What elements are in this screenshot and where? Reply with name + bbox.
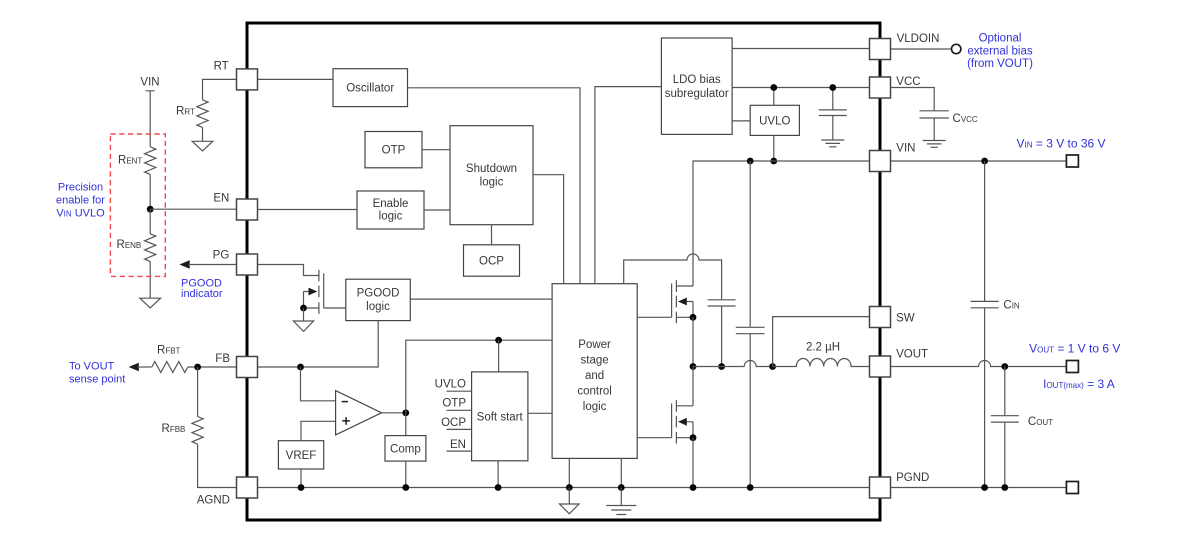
svg-text:RENB: RENB: [117, 239, 142, 251]
wire PGND pin to PGND terminal: [891, 487, 1067, 489]
svg-text:LDO bias: LDO bias: [673, 74, 721, 86]
wire arrow to RFBT: [138, 366, 152, 368]
node FB divider junction: [194, 364, 201, 371]
node SW-pin/inductor tap: [769, 363, 776, 370]
wire PGOOD logic to Power stage: [410, 298, 552, 300]
transistor Q2 (low-side MOSFET): [672, 400, 693, 443]
capacitor CIN: [971, 300, 1020, 312]
arrow PGOOD indicator: [180, 260, 190, 269]
svg-text:logic: logic: [583, 401, 607, 413]
pin VOUT: [870, 349, 929, 378]
ground (Q3 source): [293, 321, 313, 331]
capacitor CVCC: [920, 111, 978, 125]
node Soft start tap: [495, 337, 502, 344]
node CIN return: [981, 484, 988, 491]
signal label OTP into Soft start: [442, 398, 471, 411]
svg-text:control: control: [577, 386, 612, 398]
resistor RFBT: [152, 345, 188, 373]
terminal VOUT: [1066, 361, 1078, 373]
wire VLDOIN pin to optional bias terminal: [891, 48, 952, 50]
node Comp ground: [402, 484, 409, 491]
svg-text:indicator: indicator: [181, 288, 223, 300]
node Q2 source-body tie: [690, 434, 697, 441]
wire COUT top: [1004, 367, 1006, 416]
block LDO bias subregulator: [661, 38, 732, 134]
wire Q2 drain to SW node: [692, 367, 694, 406]
annotation: Precision enable for VIN UVLO: [56, 182, 105, 220]
wire VREF to AGND rail: [300, 469, 302, 488]
node UVLO-VCC junction: [770, 84, 777, 91]
wire LDO bias to Power stage: [595, 87, 662, 284]
pin AGND: [197, 477, 258, 507]
wire Oscillator to Power stage: [408, 88, 581, 284]
wire AGND/PGND internal rail: [258, 487, 870, 489]
wire VIN to RENT: [146, 91, 155, 147]
annotation: PGOOD indicator: [181, 277, 223, 300]
wire CVCC to ground: [933, 118, 935, 141]
svg-text:Oscillator: Oscillator: [346, 83, 394, 95]
wire Soft start top: [498, 340, 500, 372]
wire VOUT pin to VOUT terminal (hops over CIN line): [891, 361, 1067, 367]
resistor RFBB: [162, 417, 204, 445]
svg-text:EN: EN: [450, 439, 466, 451]
terminal optional external bias (open circle): [952, 44, 961, 53]
svg-text:and: and: [585, 370, 604, 382]
wire LDO bias to UVLO: [732, 120, 750, 122]
wire RFBB to AGND pin: [198, 444, 237, 487]
wire VIN branch to internal capacitor: [749, 161, 751, 327]
ground (VCC cap): [821, 140, 844, 147]
resistor RRT: [176, 100, 208, 128]
wire boot capacitor to SW node: [721, 306, 723, 366]
wire Q1 gate drive: [637, 316, 671, 318]
pin FB: [215, 353, 257, 378]
svg-text:sense point: sense point: [69, 374, 125, 386]
svg-text:CIN: CIN: [1003, 300, 1020, 312]
wire Comp block to AGND rail: [405, 461, 407, 487]
block VREF: [278, 441, 323, 469]
node COUT return: [1001, 484, 1008, 491]
wire Q1 source to SW node: [692, 317, 694, 366]
ground (RRT): [192, 141, 213, 151]
wire VREF to op-amp non-inverting input: [301, 421, 336, 440]
wire divider node to RENB: [149, 209, 151, 234]
wire COUT bottom to PGND rail: [1004, 422, 1006, 487]
svg-text:subregulator: subregulator: [665, 88, 729, 100]
wire Power stage ground stub 2: [620, 458, 622, 487]
capacitor COUT: [991, 416, 1053, 428]
block Comp: [385, 436, 426, 462]
svg-text:(from VOUT): (from VOUT): [967, 58, 1033, 70]
block UVLO: [750, 105, 799, 135]
svg-text:logic: logic: [480, 176, 504, 188]
wire RT pin to RRT: [203, 79, 237, 99]
node Q2 source ground: [690, 484, 697, 491]
wire Q2 source to PGND rail: [692, 438, 694, 488]
annotation: Optional external bias (from VOUT): [967, 33, 1033, 71]
wire Power stage ground stub 1: [568, 458, 570, 487]
wire VCC cap to ground: [832, 116, 834, 140]
node Soft start ground: [495, 484, 502, 491]
block OTP: [365, 132, 422, 168]
svg-text:UVLO: UVLO: [759, 115, 790, 127]
svg-text:VCC: VCC: [896, 76, 920, 88]
wire RENT to EN divider node: [149, 174, 151, 209]
svg-text:VOUT = 1 V to 6 V: VOUT = 1 V to 6 V: [1029, 342, 1120, 356]
svg-text:Power: Power: [578, 339, 611, 351]
node Q3 source-body tie: [300, 305, 307, 312]
wire Q3 source to ground: [303, 308, 305, 321]
svg-text:OCP: OCP: [479, 256, 504, 268]
svg-text:VREF: VREF: [286, 450, 317, 462]
wire LDO bias to VLDOIN pin: [732, 48, 869, 50]
node UVLO-VIN junction: [770, 158, 777, 165]
block Soft start: [472, 372, 528, 461]
svg-text:SW: SW: [896, 313, 915, 325]
terminal VIN: [1066, 155, 1078, 167]
svg-text:2.2 µH: 2.2 µH: [806, 342, 840, 354]
node COUT tap: [1001, 363, 1008, 370]
ground (analog, triangle): [560, 504, 580, 514]
capacitor bootstrap: [708, 300, 736, 306]
wire FB to op-amp inverting input: [301, 367, 336, 401]
node COMP junction: [402, 409, 409, 416]
svg-text:RENT: RENT: [118, 155, 142, 167]
module outline: [247, 23, 880, 520]
ground (CVCC): [923, 141, 946, 148]
wire op-amp output: [382, 412, 406, 414]
svg-text:FB: FB: [215, 353, 230, 365]
wire FB node down to RFBB: [197, 367, 199, 417]
wire internal VCC capacitor top: [832, 88, 834, 110]
resistor RENT: [118, 147, 156, 175]
wire OTP to Shutdown logic: [422, 149, 450, 151]
svg-text:COUT: COUT: [1028, 416, 1053, 428]
svg-text:IOUT(max) = 3 A: IOUT(max) = 3 A: [1043, 377, 1115, 391]
svg-text:logic: logic: [366, 301, 390, 313]
svg-text:Precision: Precision: [58, 182, 103, 194]
svg-text:logic: logic: [379, 211, 403, 223]
svg-text:VIN = 3 V to 36 V: VIN = 3 V to 36 V: [1017, 137, 1106, 151]
svg-text:Enable: Enable: [373, 198, 409, 210]
node VREF ground: [298, 484, 305, 491]
capacitor internal (VIN to PGND): [736, 327, 765, 333]
svg-text:RFBT: RFBT: [157, 345, 181, 357]
signal label OCP into Soft start: [441, 417, 472, 429]
svg-text:VIN: VIN: [140, 76, 159, 88]
pin EN: [213, 192, 257, 220]
wire SW row (hops internal cap line): [693, 361, 773, 367]
node FB internal junction: [297, 364, 304, 371]
svg-text:enable for: enable for: [56, 195, 105, 207]
svg-text:VLDOIN: VLDOIN: [897, 33, 940, 45]
wire arrow to PG pin: [188, 264, 236, 266]
capacitor internal VCC bypass: [819, 110, 847, 116]
wire bootstrap (Power stage to boot capacitor, hops VIN drop): [624, 254, 722, 299]
terminal PGND: [1066, 482, 1078, 494]
block Power stage and control logic: [552, 284, 637, 459]
signal label EN into Soft start: [447, 439, 472, 451]
wire RFBT to FB pin: [188, 366, 237, 368]
pin PG: [213, 249, 258, 275]
wire UVLO to VIN rail: [773, 135, 775, 161]
wire PG pin to Q3 drain: [258, 265, 319, 276]
wire Soft start to Power stage: [528, 412, 552, 414]
pin VIN: [870, 142, 916, 171]
svg-text:PG: PG: [213, 249, 230, 261]
wire SW node to SW pin: [773, 317, 870, 367]
wire RT pin to Oscillator: [258, 78, 334, 80]
wire FB pin to PGOOD logic: [258, 321, 379, 367]
svg-text:OTP: OTP: [442, 398, 466, 410]
svg-text:PGOOD: PGOOD: [357, 288, 400, 300]
transistor Q1 (high-side MOSFET): [672, 280, 693, 323]
wire to analog ground symbol: [568, 488, 570, 505]
wire VIN rail internal (VIN pin to Q1 drain): [693, 161, 870, 286]
block Shutdown logic: [450, 126, 533, 225]
pin VCC: [870, 76, 921, 98]
svg-text:RT: RT: [214, 60, 229, 72]
svg-text:Shutdown: Shutdown: [466, 163, 517, 175]
node SW junction: [690, 363, 697, 370]
svg-text:OCP: OCP: [441, 417, 466, 429]
pin SW: [870, 307, 915, 328]
wire divider node to EN pin: [150, 208, 236, 210]
node boot-SW junction: [718, 363, 725, 370]
wire VCC rail (LDO bias to VCC pin): [732, 87, 869, 89]
svg-text:VIN: VIN: [896, 142, 915, 154]
ground (EN divider): [140, 298, 161, 308]
svg-text:stage: stage: [581, 354, 609, 366]
block Enable logic: [357, 191, 424, 229]
node VIN-decoupling tap: [747, 158, 754, 165]
wire to power ground symbol: [620, 488, 622, 506]
node Q1 source-body tie: [690, 314, 697, 321]
svg-text:CVCC: CVCC: [953, 113, 978, 125]
arrow to VOUT sense point: [129, 363, 139, 372]
wire Enable logic to Shutdown logic: [424, 209, 450, 211]
annotation: To VOUT sense point: [69, 361, 125, 386]
wire UVLO to VCC rail: [773, 88, 775, 106]
wire Shutdown logic to Power stage: [533, 175, 564, 284]
wire RRT to ground: [202, 127, 204, 141]
precision-enable red dashed highlight box: [110, 134, 165, 276]
wire CIN bottom to PGND rail: [984, 308, 986, 488]
signal label UVLO into Soft start: [435, 379, 472, 392]
node internal cap ground: [747, 484, 754, 491]
node VIN (external divider supply): [140, 76, 159, 88]
svg-text:PGND: PGND: [896, 472, 929, 484]
svg-text:OTP: OTP: [382, 145, 406, 157]
node CIN tap: [981, 158, 988, 165]
wire VCC pin to CVCC: [891, 88, 935, 111]
svg-text:VOUT: VOUT: [896, 349, 928, 361]
node Power stage ground 2: [618, 484, 625, 491]
wire CIN top: [984, 161, 986, 301]
wire Shutdown logic to OCP: [491, 225, 493, 245]
wire RENB to ground: [149, 261, 151, 298]
wire COMP to Comp block: [405, 413, 407, 436]
svg-text:VIN UVLO: VIN UVLO: [56, 208, 105, 220]
wire Q3 gate to PGOOD logic: [324, 307, 346, 309]
wire internal capacitor to PGND rail: [749, 334, 751, 488]
inductor 2.2 uH: [773, 342, 870, 367]
wire Soft start to AGND rail: [497, 461, 499, 488]
wire EN pin to Enable logic: [258, 209, 358, 211]
svg-text:Comp: Comp: [390, 443, 421, 455]
node EN divider junction: [147, 206, 154, 213]
wire COMP to Power stage: [406, 340, 552, 413]
node Power stage ground 1: [566, 484, 573, 491]
svg-text:EN: EN: [213, 192, 229, 204]
node VCC cap junction: [829, 84, 836, 91]
svg-text:RRT: RRT: [176, 106, 195, 118]
ground (power, 3-bar): [606, 506, 636, 515]
svg-text:external bias: external bias: [967, 46, 1032, 58]
transistor Q3 (PGOOD open-drain MOSFET): [304, 270, 324, 314]
pin RT: [214, 60, 258, 90]
wire Q2 gate drive: [637, 437, 671, 439]
pin VLDOIN: [870, 33, 940, 60]
wire VIN pin to VIN terminal: [891, 160, 1067, 162]
svg-text:UVLO: UVLO: [435, 379, 466, 391]
svg-text:To VOUT: To VOUT: [69, 361, 115, 373]
block PGOOD logic: [346, 279, 411, 320]
block OCP: [464, 245, 520, 276]
op-amp U1 (error amplifier): [336, 391, 382, 435]
svg-text:Soft start: Soft start: [477, 411, 524, 423]
resistor RENB: [117, 234, 156, 262]
block Oscillator: [333, 69, 408, 107]
svg-text:RFBB: RFBB: [162, 423, 186, 435]
svg-text:AGND: AGND: [197, 495, 230, 507]
pin PGND: [870, 472, 930, 498]
svg-text:Optional: Optional: [979, 33, 1022, 45]
